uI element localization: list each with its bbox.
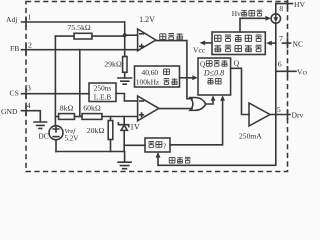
svg-text:1V: 1V <box>130 123 140 132</box>
svg-text:Hv: Hv <box>232 9 241 18</box>
svg-text:5.2V: 5.2V <box>65 134 79 142</box>
resistor R 20k label <box>87 126 105 135</box>
op-amp comparator U2 current sense <box>138 96 159 121</box>
label 1.2V <box>139 15 155 24</box>
svg-text:Q: Q <box>234 59 240 68</box>
resistor R 8k <box>55 114 74 120</box>
box oscillator clock 40/60/100kHz <box>135 66 180 87</box>
svg-text:250ns: 250ns <box>94 84 112 93</box>
box flip-flop Q D<=0.8 reset <box>198 58 231 95</box>
box overload? <box>145 138 170 152</box>
resistor R 75.5k <box>55 33 124 39</box>
ground (bottom rail) <box>118 162 131 169</box>
svg-text:2: 2 <box>28 41 32 50</box>
box 250ns L.E.B <box>89 83 116 102</box>
arrow up into overload box <box>156 152 161 158</box>
OR gate <box>190 98 206 111</box>
label Q output <box>234 59 240 68</box>
svg-text:40,60: 40,60 <box>142 68 159 77</box>
svg-text:29kΩ: 29kΩ <box>104 59 122 68</box>
arrow UVLO to Vcc label <box>193 41 212 55</box>
svg-text:8kΩ: 8kΩ <box>60 104 74 113</box>
DC source Vref 5.2V <box>39 126 79 152</box>
svg-text:DC: DC <box>39 132 49 140</box>
wire comparator U1 output to OR gate <box>156 41 192 99</box>
wire 75.5k left leg to FB <box>54 36 56 50</box>
resistor R 60k label <box>83 104 101 113</box>
wire overload box to flip-flop reset <box>170 100 223 145</box>
ground (29k) <box>118 78 132 84</box>
svg-text:Adj: Adj <box>6 15 17 24</box>
HV current source <box>271 14 280 23</box>
wire bottom ground rail <box>56 152 125 163</box>
svg-text:L.E.B: L.E.B <box>94 92 112 101</box>
op-amp comparator U1 <box>138 29 156 51</box>
svg-text:20kΩ: 20kΩ <box>87 126 105 135</box>
driver buffer 250mA <box>239 103 270 141</box>
pin 7 NC <box>279 34 303 48</box>
pin 2 FB <box>10 41 138 55</box>
svg-text:8: 8 <box>279 4 283 13</box>
resistor R 8k label <box>60 104 74 113</box>
svg-text:60kΩ: 60kΩ <box>83 104 101 113</box>
wire FB leg down to divider <box>79 50 81 117</box>
svg-text:250mA: 250mA <box>239 132 262 141</box>
wire LEB output to comparator U2 minus <box>116 94 138 101</box>
svg-text:GND: GND <box>1 107 18 116</box>
svg-text:Drv: Drv <box>292 111 304 120</box>
label overload (guo fu he) <box>169 157 190 163</box>
svg-text:CS: CS <box>10 89 19 98</box>
wire overload feedback from driver output <box>158 115 276 166</box>
label comparator (bi jiao qi) <box>160 33 183 39</box>
svg-text:1: 1 <box>28 13 32 22</box>
pin 5 Drv <box>270 105 304 120</box>
svg-text:D≤0.8: D≤0.8 <box>203 68 224 77</box>
wire comparator U2 output to OR gate <box>159 108 192 110</box>
resistor R 29k label <box>104 59 122 68</box>
wire zener node to overload box <box>124 144 145 146</box>
label HV source (Hv + cjk) <box>232 9 263 18</box>
zener diode D1 1V <box>118 117 128 152</box>
svg-text:Q: Q <box>200 61 206 69</box>
svg-text:Vcc: Vcc <box>297 68 307 77</box>
pin 4 GND <box>1 101 40 121</box>
svg-text:75.5kΩ: 75.5kΩ <box>67 23 91 32</box>
resistor R 20k <box>108 117 113 152</box>
dashed IC boundary box <box>26 2 288 172</box>
svg-text:NC: NC <box>293 39 304 48</box>
svg-text:7: 7 <box>279 34 283 43</box>
wire FB/CS rail down to DC source <box>54 50 56 126</box>
arrow into flip-flop (reset left) <box>211 95 216 101</box>
pin 3 CS <box>10 83 90 98</box>
svg-text:Vcc: Vcc <box>193 46 206 55</box>
resistor R 60k <box>75 114 138 120</box>
wire Vcc rail vertical <box>275 23 277 115</box>
svg-text:3: 3 <box>27 83 31 92</box>
wire Adj leg down to node <box>124 22 126 35</box>
box UVLO and internal regulator <box>212 32 265 55</box>
svg-text:HV: HV <box>294 0 305 9</box>
wire node to comparator minus <box>125 34 138 36</box>
label 1V <box>130 123 140 132</box>
pin 1 Adj <box>6 13 125 27</box>
node junction dot <box>123 33 127 37</box>
resistor R 75.5k label <box>67 23 91 32</box>
arrow current source into UVLO <box>266 41 276 46</box>
wire HV current source up to pin 8 <box>275 4 277 14</box>
wire OR output to flip-flop <box>206 100 213 104</box>
svg-text:100kHz: 100kHz <box>136 78 160 87</box>
svg-text:1.2V: 1.2V <box>139 15 155 24</box>
svg-text:6: 6 <box>278 60 282 69</box>
resistor R 29k <box>123 35 127 78</box>
wire UVLO top to HV current source <box>240 16 271 32</box>
wire Q to driver <box>231 68 249 114</box>
arrow into flip-flop (reset right) <box>220 95 225 101</box>
pin 6 Vcc <box>276 60 310 77</box>
svg-text:FB: FB <box>10 44 19 53</box>
wire clock to flip-flop with arrow <box>180 75 198 80</box>
svg-text:5: 5 <box>277 105 281 114</box>
svg-text:4: 4 <box>27 101 31 110</box>
ground (pin 4) <box>34 122 46 128</box>
pin 8 HV <box>276 0 306 13</box>
